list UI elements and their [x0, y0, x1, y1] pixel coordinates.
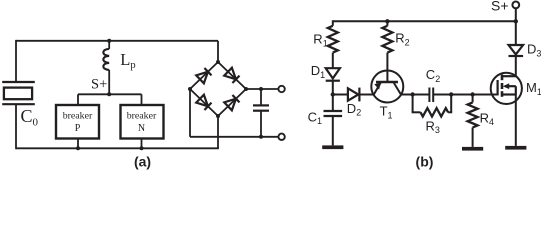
wire: top rail down to bridge top vertex [217, 41, 219, 62]
svg-text:breaker: breaker [63, 111, 93, 122]
breaker N box [121, 105, 164, 139]
node: dot breaker P at bottom rail [76, 146, 80, 150]
wire: bridge left vertex down to output lower rail [189, 89, 191, 137]
node: bridge left vertex dot [188, 87, 192, 91]
svg-text:M1: M1 [526, 80, 541, 97]
svg-text:T1: T1 [380, 104, 393, 121]
wire: bridge arm upper-left [190, 62, 218, 89]
svg-text:Lp: Lp [120, 50, 135, 71]
capacitor (a) output top plate [253, 104, 269, 106]
node: dot filter cap top [259, 87, 263, 91]
transistor T1 base bar [376, 81, 398, 84]
wire: C2 right plate to gate node [433, 94, 497, 96]
wire: breaker N top lead [141, 94, 143, 105]
wire: S+ bus over breakers [78, 93, 142, 95]
svg-text:D3: D3 [527, 42, 541, 59]
svg-text:C0: C0 [21, 106, 39, 129]
wire: R2 top lead [386, 21, 388, 26]
mosfet M1 drain stub [502, 75, 516, 77]
wire: circuit (a) top rail [16, 40, 218, 42]
svg-text:P: P [75, 123, 81, 134]
capacitor (a) output bottom plate [253, 110, 269, 112]
wire: Lp top lead [108, 41, 110, 49]
node: dot breaker N at bottom rail [140, 146, 144, 150]
capacitor C1 bottom plate [324, 115, 343, 117]
svg-text:S+: S+ [91, 77, 107, 93]
wire: Lp bottom lead to S+ bus [108, 70, 110, 94]
capacitor C1 top plate [324, 110, 343, 112]
svg-text:R3: R3 [426, 118, 440, 135]
svg-text:R2: R2 [395, 31, 409, 48]
wire: (a) output upper rail [246, 88, 279, 90]
breaker P box [56, 105, 99, 139]
wire: gate wire into M1 [473, 94, 498, 96]
node: dot network right [449, 92, 453, 96]
svg-text:D2: D2 [347, 101, 361, 118]
wire: R2 bottom to T1 base [386, 53, 388, 82]
diode D2 [348, 88, 358, 100]
wire: circuit (a) bottom rail [16, 147, 219, 149]
svg-text:S+: S+ [491, 0, 509, 14]
wire: bridge arm lower-left [190, 89, 218, 116]
node: bridge bottom vertex dot [216, 114, 220, 118]
wire: D3 cathode to M1 drain [515, 56, 517, 76]
wire: circuit (a) left lead down to transducer [15, 40, 17, 82]
svg-text:breaker: breaker [127, 111, 157, 122]
node: dot R4 tap [470, 92, 474, 96]
svg-text:(a): (a) [134, 154, 151, 170]
svg-text:C1: C1 [308, 109, 322, 126]
transistor T1 emitter lead with arrow [374, 83, 381, 95]
wire: D1 cathode down to C1 [332, 81, 334, 111]
node: bridge right vertex dot [244, 87, 248, 91]
resistor R2 [382, 26, 392, 53]
wire: (a) output lower rail [190, 136, 279, 138]
diode bridge lower-right [224, 95, 240, 111]
wire: filter cap bottom lead [260, 111, 262, 137]
wire: breaker N bottom lead [141, 139, 143, 149]
mosfet M1 gate bar [497, 80, 499, 95]
wire: R1 top lead [332, 20, 334, 26]
node: dot filter cap bottom [259, 135, 263, 139]
ground below M1 [505, 146, 526, 150]
diode D3 [509, 45, 524, 54]
node: bridge top vertex dot [216, 60, 220, 64]
mosfet M1 channel segments [501, 75, 504, 81]
wire: R3 branch right stub [448, 111, 452, 113]
transistor T1 body circle [371, 71, 403, 103]
transistor T1 collector lead [394, 82, 401, 94]
resistor R3 [421, 108, 449, 116]
diode bridge upper-right [224, 68, 240, 84]
wire: breaker P top lead [77, 94, 79, 105]
mosfet M1 body arrow [505, 85, 516, 87]
wire: C1 bottom to ground [332, 116, 334, 145]
wire: M1 source down to ground [515, 95, 517, 146]
wire: T1 collector to network [401, 94, 430, 96]
piezoelectric transducer C0 bottom plate [2, 103, 35, 105]
terminal: (a) output upper [278, 86, 284, 92]
wire: R4 top lead [472, 95, 474, 103]
resistor R4 [468, 102, 478, 127]
svg-text:R4: R4 [480, 110, 494, 127]
wire: S+ terminal to top rail [515, 8, 517, 21]
wire: transducer bottom lead to (a) bottom rail [15, 104, 17, 149]
node: junction dot Lp to bus [107, 92, 111, 96]
wire: (b) top rail [333, 20, 516, 22]
node: dot network left [410, 92, 414, 96]
node: dot D1 D2 C1 junction [331, 92, 335, 96]
svg-text:D1: D1 [311, 63, 325, 80]
node: dot S+ at top rail [514, 19, 518, 23]
capacitor C2 left plate [428, 88, 430, 103]
wire: bridge arm upper-right [218, 62, 246, 89]
node: junction dot at top of Lp [107, 39, 111, 43]
wire: M1 source-body vertical [515, 86, 517, 94]
diode bridge lower-left [196, 95, 212, 111]
ground below C1 [322, 145, 343, 149]
wire: filter cap top lead [260, 89, 262, 105]
piezoelectric transducer C0 top plate [2, 81, 35, 83]
ground below R4 [462, 147, 483, 151]
wire: R1 bottom to D1 [332, 53, 334, 69]
mosfet M1 source stub [502, 93, 516, 95]
wire: breaker P bottom lead [77, 139, 79, 149]
svg-text:C2: C2 [426, 67, 440, 84]
terminal: S+ (b) [512, 2, 519, 9]
mosfet M1 body circle [491, 73, 522, 104]
wire: bridge arm lower-right [218, 89, 246, 116]
svg-text:R1: R1 [313, 32, 327, 49]
capacitor C2 right plate [432, 88, 434, 103]
wire: D2 cathode to T1 emitter [359, 94, 373, 96]
diode D1 [326, 68, 340, 78]
wire: R4 bottom to ground [472, 128, 474, 147]
wire: R3 branch left stub [412, 95, 414, 113]
inductor Lp coil [103, 49, 109, 70]
resistor R1 [328, 26, 338, 53]
diode bridge upper-left [196, 68, 212, 84]
wire: top rail down to D3 [515, 21, 517, 45]
svg-text:N: N [138, 123, 145, 134]
svg-text:(b): (b) [416, 154, 434, 170]
node: dot R2 at top rail [385, 19, 389, 23]
terminal: (a) output lower [278, 134, 284, 140]
piezoelectric transducer C0 crystal body [4, 88, 32, 100]
wire: node to D2 anode [333, 94, 348, 96]
wire: bridge bottom vertex down to (a) bottom rail [217, 116, 219, 148]
